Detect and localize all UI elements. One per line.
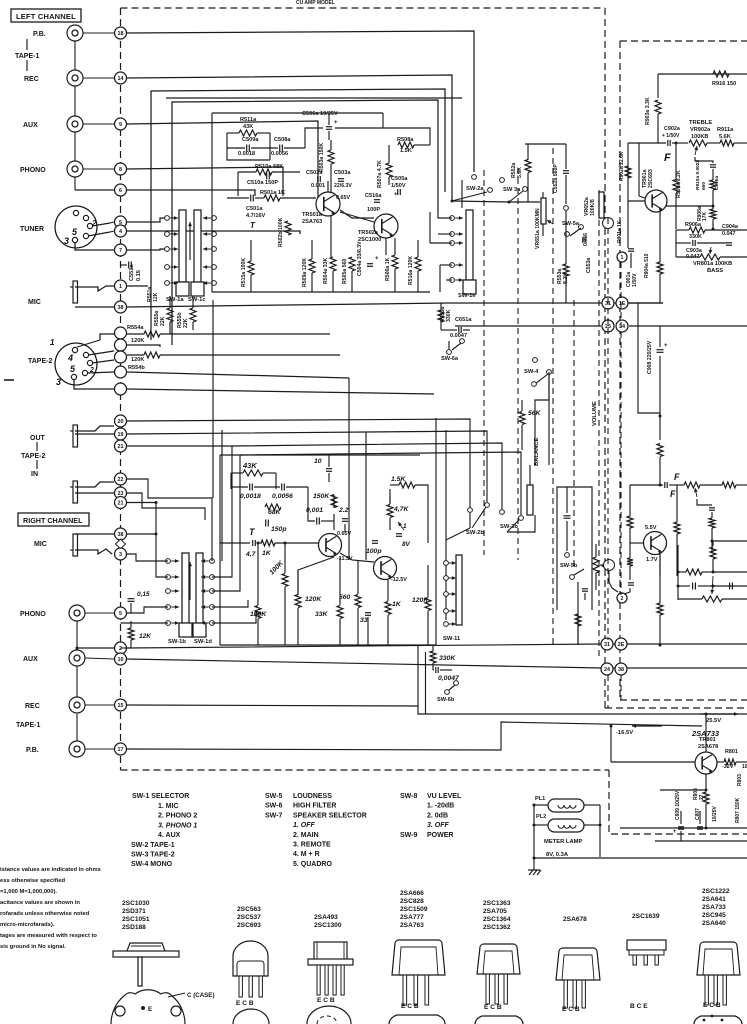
node 7 [115,244,127,256]
svg-text:C504a 33/6.3V: C504a 33/6.3V [357,241,363,276]
node t3 [115,351,127,363]
wire tone2 rail right [700,484,722,486]
transistor package TO-66 lead [138,957,142,986]
wire r515a [250,240,252,261]
capacitor tr951 base cap [628,582,634,584]
svg-text:C553a: C553a [586,258,592,273]
svg-text:MIC: MIC [34,541,47,548]
resistor tone2 r2 [709,518,715,528]
svg-text:330K: 330K [689,234,702,240]
transistor TR501a 2SA763 [316,192,340,216]
jack MIC left (phone jack) [73,281,78,303]
wire bottom power rail [655,840,747,842]
svg-text:3. PHONO 1: 3. PHONO 1 [158,822,197,829]
resistor 12K right channel [128,628,134,640]
svg-text:2SC693: 2SC693 [237,922,261,929]
transistor package group8 bottom view [694,1016,742,1024]
svg-text:C501a: C501a [246,206,263,212]
svg-text:C508a: C508a [274,137,291,143]
svg-text:sis ground in No signal.: sis ground in No signal. [0,944,66,950]
svg-text:2SA763: 2SA763 [400,922,424,929]
wire tone top rail [658,73,747,75]
wire 25.5V arrow [700,713,738,715]
wire r801 leads [717,761,724,763]
svg-text:330K: 330K [439,655,456,662]
svg-text:1. -20dB: 1. -20dB [427,803,454,810]
wire tr801 collector to rail [705,714,707,752]
wire cluster a [440,303,442,310]
wire vr651a [542,192,544,198]
svg-text:SW-5b: SW-5b [560,563,578,569]
svg-text:rofarads unless otherwise note: rofarads unless otherwise noted [0,911,90,917]
wire -16.5V arrow [632,725,662,727]
wire P.B. to node 18 [83,32,114,34]
svg-text:SW-2 TAPE-1: SW-2 TAPE-1 [131,842,175,849]
wire tr901a base [628,200,645,202]
wire out jack wires [75,426,114,431]
svg-text:2: 2 [621,596,624,602]
svg-text:17: 17 [118,747,124,753]
wire c908 [659,332,661,347]
wire tone2 mid r link [676,485,678,522]
svg-text:+: + [375,256,379,262]
svg-text:120K: 120K [131,338,144,344]
jack MIC right [73,534,78,556]
node 4 [115,225,127,237]
svg-text:PHONO: PHONO [20,167,46,174]
wire tr951 left [629,485,631,516]
svg-text:100KB: 100KB [691,134,708,140]
svg-text:ess otherwise specified: ess otherwise specified [0,878,66,884]
svg-text:VR651a 100KMN: VR651a 100KMN [535,208,541,249]
svg-text:R911a: R911a [717,127,734,133]
wire 12k ties [130,621,132,628]
svg-text:0,15: 0,15 [137,591,150,598]
wire in jack wires [75,482,114,487]
svg-text:3. OFF: 3. OFF [427,822,450,829]
svg-text:SW-4: SW-4 [524,369,539,375]
node 14 [115,72,127,84]
svg-text:2SA640: 2SA640 [702,920,726,927]
resistor 68K handwritten [265,504,281,510]
svg-text:22/6.3V: 22/6.3V [334,183,352,189]
jack AUX right [69,650,85,666]
switch SW-1e wafer [466,210,473,280]
transistor package group2 bottom view [233,1009,269,1024]
wire stray mark [4,379,14,381]
svg-text:10/25V: 10/25V [712,805,718,822]
svg-text:2SC1051: 2SC1051 [122,916,150,923]
svg-text:F: F [670,489,676,499]
svg-text:C509a: C509a [242,137,259,143]
svg-text:43K: 43K [243,124,253,130]
wire c506a [328,113,330,125]
svg-text:560: 560 [339,594,351,601]
svg-text:1/50V: 1/50V [391,183,406,189]
svg-text:C809 10/25V: C809 10/25V [675,790,681,820]
svg-text:R554b: R554b [128,365,145,371]
svg-text:10: 10 [314,458,322,465]
svg-text:TUNER: TUNER [20,226,44,233]
jack PHONO left [67,161,83,177]
capacitor loudness C558 [564,515,571,517]
wire right preamp rails [220,454,420,456]
svg-text:3: 3 [64,236,69,246]
dashed gang line BALANCE [552,148,554,645]
svg-text:SW-3b: SW-3b [500,524,518,530]
jack OUT left [73,425,78,447]
wire bus 326 full [455,325,601,327]
svg-text:2SC945: 2SC945 [702,912,726,919]
wire 669 vertical stubs [606,650,608,663]
capacitor bass2 C954 [729,583,731,590]
svg-text:4: 4 [119,229,122,235]
svg-text:3. REMOTE: 3. REMOTE [293,842,331,849]
dashed gang line SW-2 [483,170,485,555]
wire main block boundary left dashed gang line [120,8,122,770]
wire node1 mic [127,285,148,287]
svg-text:IN: IN [31,471,38,478]
jack REC left [67,70,83,86]
wire IN tie [36,460,38,469]
resistor r961 [722,482,736,488]
capacitor tone2 cap [664,482,666,488]
svg-text:SW-6a: SW-6a [441,356,459,362]
svg-text:SW-1 SELECTOR: SW-1 SELECTOR [132,793,189,800]
wire jack column left channel [74,41,76,70]
svg-text:2SA733: 2SA733 [702,904,726,911]
svg-text:SW-1c: SW-1c [188,297,206,303]
wire right channel feeds [155,503,157,535]
wire main block boundary right dashed [604,8,606,708]
node 15 [115,699,127,711]
svg-text:2. PHONO 2: 2. PHONO 2 [158,813,197,820]
wire mic3 wire [75,549,112,554]
switch SW-1f wafer [456,555,462,625]
jack TAPE2-IN left [73,481,78,503]
svg-text:2SA678: 2SA678 [563,916,587,923]
wire lamp left ties [534,804,548,806]
node 31a [602,297,614,309]
svg-text:R503a 150K: R503a 150K [319,143,325,172]
resistor tone2 vert r [657,444,663,457]
node 21a [115,440,127,452]
wire pot wiper down [695,157,713,163]
svg-text:E: E [148,1006,152,1013]
svg-text:38: 38 [118,532,124,538]
switch SW-5b [565,553,570,558]
svg-text:MIC: MIC [28,299,41,306]
wire circled2 link2 [624,588,630,594]
wire tr951 emitter rail [659,554,661,603]
wire bus tape2 out lower [127,419,470,507]
svg-text:SW-2a: SW-2a [466,186,484,192]
wire 857 rail [534,857,747,859]
resistor r553b [575,614,581,626]
svg-text:-16.5V: -16.5V [616,730,633,736]
svg-text:-12.5V: -12.5V [391,577,407,583]
svg-text:0,001: 0,001 [306,507,323,514]
svg-text:0.056: 0.056 [583,233,589,246]
svg-text:150K: 150K [313,493,330,500]
svg-text:REC: REC [25,703,40,710]
wire node6 drop [127,190,255,196]
node 34 [616,320,628,332]
transistor TR502a 2SC1000 [374,214,398,238]
transistor package group4 leads [403,975,407,1005]
svg-text:100K: 100K [250,611,267,618]
node 38b [115,528,127,540]
pot wiper arrow lower [600,565,606,566]
wire r511a loop [227,132,239,134]
svg-text:12K: 12K [139,633,152,640]
jack P.B. right [69,741,85,757]
wire aux right wires [85,658,114,659]
wire sw11 box verticals [417,645,419,706]
svg-text:R510a 68K: R510a 68K [255,164,283,170]
svg-text:0,0056: 0,0056 [272,493,293,500]
svg-text:R803: R803 [737,774,743,786]
wire mic right wires [75,533,114,535]
resistor 100K rc lower [255,606,261,619]
svg-text:8V, 0.3A: 8V, 0.3A [546,852,569,858]
wire P.B.-TAPE-1 tie [26,39,28,50]
node 25 [602,320,614,332]
svg-text:3: 3 [56,377,61,387]
svg-text:R904a 510: R904a 510 [644,253,650,278]
wire MIC to node 1 [75,286,114,291]
jack REC right [69,697,85,713]
wire cap row rc [231,486,248,488]
svg-text:-32V: -32V [722,764,734,770]
wire power section dashed boundary [609,770,747,834]
svg-text:R502b 100K: R502b 100K [278,217,284,247]
svg-text:0.0018: 0.0018 [238,151,255,157]
wire cap row [227,147,245,149]
wire lower sw net [577,626,579,644]
transistor TR951 right tone [644,532,667,555]
resistor bass2 R957 [686,569,702,575]
svg-text:38: 38 [118,305,124,311]
wire bass2 row1 [678,571,686,573]
svg-text:SW-8: SW-8 [400,793,417,800]
svg-text:33K: 33K [315,611,329,618]
capacitor 0,0056 [281,484,283,491]
svg-text:E C B: E C B [484,1004,502,1011]
svg-text:0.0047: 0.0047 [450,333,467,339]
wire bus 455 [240,452,521,515]
svg-text:R554a: R554a [127,325,144,331]
svg-text:5.5V: 5.5V [645,525,657,531]
node 38c [615,663,627,675]
svg-text:+ 1/50V: + 1/50V [662,133,680,139]
ground meter [533,857,536,860]
wire tr951 emitter down [659,554,661,576]
switch SW-2b [468,508,473,513]
wire bus return REC [151,89,445,340]
svg-text:VR801a 100KB: VR801a 100KB [693,261,732,267]
wire lamp right ties [584,804,600,806]
svg-text:1: 1 [119,284,122,290]
transistor package group2 leads [239,976,242,997]
svg-text:2SC1363: 2SC1363 [483,900,511,907]
svg-text:LOUDNESS: LOUDNESS [293,793,332,800]
svg-text:21: 21 [118,500,124,506]
svg-text:BASS: BASS [707,268,723,274]
svg-text:14: 14 [118,76,124,82]
wire mic node 38 [75,306,114,308]
pot bass2 VR951 wiper [712,576,713,594]
pot bass2 VR951 [702,596,722,602]
svg-text:AUX: AUX [23,122,38,129]
svg-text:SW-6b: SW-6b [437,697,455,703]
svg-text:21: 21 [118,444,124,450]
wire sw1 bottom wires [169,296,171,308]
svg-text:1E: 1E [619,301,626,307]
svg-text:22K: 22K [183,318,189,328]
svg-text:METER LAMP: METER LAMP [544,839,582,845]
capacitor 0,0018 [249,484,251,491]
svg-text:SW-5: SW-5 [265,793,282,800]
svg-text:1.5K: 1.5K [400,148,412,154]
svg-text:HIGH FILTER: HIGH FILTER [293,803,336,810]
svg-text:TAPE-1: TAPE-1 [15,53,39,60]
wire node2 bus [127,644,747,648]
svg-text:SW-6: SW-6 [265,803,282,810]
wire bass row [676,229,689,231]
svg-text:2SA777: 2SA777 [400,914,424,921]
wire f cluster [432,645,434,651]
svg-text:33: 33 [360,617,368,624]
wire tone rail right [707,142,720,144]
wire sw1e vert feeds [461,180,463,208]
svg-text:1: 1 [50,338,55,347]
svg-text:2SC1222: 2SC1222 [702,888,730,895]
wire node5 tuner [127,218,167,222]
svg-text:R902a 22.6K: R902a 22.6K [619,151,625,181]
switch SW-6b [445,690,450,695]
transistor package group8 body [697,942,740,975]
node circled 1 [617,252,627,262]
svg-text:3: 3 [119,552,122,558]
transistor package group7 body [627,940,666,950]
transistor package group3 bottom view [307,1006,351,1024]
svg-text:120K: 120K [131,357,144,363]
svg-text:B C E: B C E [630,1003,648,1010]
svg-text:2SC1639: 2SC1639 [632,913,660,920]
svg-text:E C B: E C B [236,1000,254,1007]
switch gang arrow lower [189,562,191,600]
svg-text:2SC1362: 2SC1362 [483,924,511,931]
svg-text:E C B: E C B [703,1002,721,1009]
svg-text:25.5V: 25.5V [706,718,721,724]
svg-text:R501a 1K: R501a 1K [260,190,285,196]
pot 8V arrow [396,533,402,535]
svg-text:0.65V: 0.65V [337,531,351,537]
svg-text:8: 8 [119,167,122,173]
node 2b [115,642,127,654]
svg-text:SW-2b: SW-2b [466,530,484,536]
svg-text:1: 1 [621,255,624,261]
svg-text:2: 2 [119,646,122,652]
svg-text:R506a 1K: R506a 1K [385,257,391,281]
wire collector lines [327,181,329,192]
svg-text:5. QUADRO: 5. QUADRO [293,861,332,868]
svg-text:R511a: R511a [240,117,257,123]
svg-text:2.2: 2.2 [338,507,349,514]
wire bus return2 [172,100,438,345]
svg-text:PL2: PL2 [536,814,546,820]
wire node10 bus [127,659,747,668]
node 1 [115,280,127,292]
svg-text:1: 1 [403,523,407,530]
connector big circle [603,218,614,229]
svg-text:2. 0dB: 2. 0dB [427,812,448,819]
resistor tr951 base r2 [627,558,633,566]
wire rec right wire [85,704,114,706]
wire wiper2 [697,499,712,505]
wire emitter net [666,206,713,209]
transistor package group7 leads [633,955,636,965]
jack AUX left [67,116,83,132]
dashed gang line SW-3 [517,168,519,560]
node t5 [115,383,127,395]
svg-text:OUT: OUT [30,435,46,442]
wire r903a down [657,114,659,143]
svg-text:R801: R801 [725,749,738,755]
wire node17 bus [127,722,702,750]
wire c901a [630,253,632,268]
svg-text:2SC1509: 2SC1509 [400,906,428,913]
resistor bass2 R956 [710,547,716,559]
svg-text:LEFT CHANNEL: LEFT CHANNEL [16,12,76,21]
svg-text:E C B: E C B [401,1003,419,1010]
svg-text:C902a: C902a [664,126,681,132]
wire tr901 collector rail [657,74,659,98]
svg-text:BALANCE: BALANCE [534,438,540,466]
wire main block boundary bottom dashed [121,769,610,771]
svg-text:SPEAKER SELECTOR: SPEAKER SELECTOR [293,812,367,819]
wire tone2 mid [711,512,713,518]
svg-text:2SD371: 2SD371 [122,908,146,915]
switch SW-1a wafer [179,210,186,282]
node 21b [115,497,127,509]
transistor package group4 bottom view [389,1015,445,1024]
svg-text:56K: 56K [528,410,542,417]
transistor TR551 rc first [319,534,342,557]
svg-text:R509a 120K: R509a 120K [302,258,308,287]
node circled 2 [617,593,627,603]
wire tone block dashed bottom to edge [620,699,747,701]
wire REC to node 14 [83,77,114,79]
wire mid bus 303 right [448,302,663,304]
wire tone2 vert2 [659,457,661,485]
wire bass2 row2 [678,585,690,587]
node 18 [115,27,127,39]
svg-text:660: 660 [701,182,707,190]
svg-text:C651a: C651a [455,317,472,323]
svg-text:C552a 560P: C552a 560P [553,164,559,193]
switch SW-1f contacts [444,561,449,566]
svg-text:tages are measured with respec: tages are measured with respect to [0,933,97,939]
node 23 [115,487,127,499]
transistor TR552 rc second [374,557,397,580]
svg-text:R903a 3.3K: R903a 3.3K [645,97,651,125]
capacitor c553b [582,588,588,590]
svg-text:31: 31 [604,642,610,648]
svg-text:4,7K: 4,7K [393,506,409,513]
svg-text:C505a: C505a [391,176,408,182]
